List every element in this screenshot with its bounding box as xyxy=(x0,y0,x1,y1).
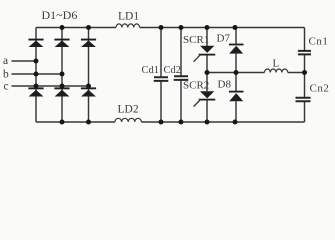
capacitor Cd2 plates xyxy=(174,76,189,80)
junction dot bottom rail D8 xyxy=(233,120,238,125)
junction dot top rail SCR1 xyxy=(205,25,210,30)
svg-text:Cn1: Cn1 xyxy=(309,36,329,48)
wire SCR column (top rail to SCR1) xyxy=(206,28,208,47)
diode D2 (bridge top, column 2) xyxy=(54,39,69,47)
junction dot bottom rail col3 xyxy=(86,120,91,125)
junction dot phase a col1 xyxy=(34,59,39,64)
diode D3 (bridge top, column 3) xyxy=(81,39,96,47)
wire phase c xyxy=(12,85,89,87)
wire phase a xyxy=(12,60,37,62)
thyristor SCR1 xyxy=(194,46,216,62)
wire top rail (LD1 to right corner) xyxy=(140,27,305,29)
junction dot top rail col2 xyxy=(60,25,65,30)
junction dot phase c col1 xyxy=(34,84,39,89)
wire SCR1 cathode to mid node xyxy=(206,55,208,73)
svg-text:D8: D8 xyxy=(218,79,232,91)
wire SCR2 cathode to bottom rail xyxy=(206,100,208,122)
diode D4 (bridge bottom, column 1) xyxy=(28,87,43,96)
junction dot top rail Cd1 xyxy=(159,25,164,30)
diode D8 xyxy=(229,91,244,102)
junction dot mid node D8 xyxy=(234,70,239,75)
svg-text:D7: D7 xyxy=(217,33,231,45)
wire SCR2 anode from mid node xyxy=(206,73,208,92)
wire D7 anode to mid node xyxy=(235,54,237,73)
junction dot bottom rail col2 xyxy=(60,120,65,125)
wire D8 anode to bottom rail xyxy=(235,101,237,122)
junction dot phase b col1 xyxy=(34,72,39,77)
capacitor Cn1 branch wire xyxy=(304,28,306,73)
svg-text:LD2: LD2 xyxy=(118,104,139,116)
wire top rail (left segment to LD1) xyxy=(36,27,116,29)
capacitor Cn2 plates xyxy=(296,98,311,102)
svg-text:SCR2: SCR2 xyxy=(183,80,209,92)
junction dot phase c col2 xyxy=(60,84,65,89)
svg-text:Cn2: Cn2 xyxy=(310,83,330,95)
wire bridge column 3 xyxy=(88,28,90,123)
diode D5 (bridge bottom, column 2) xyxy=(54,87,69,96)
svg-text:Cd1: Cd1 xyxy=(142,65,160,76)
junction dot top rail col3 xyxy=(86,25,91,30)
wire L to output node xyxy=(288,72,305,74)
svg-text:a: a xyxy=(3,55,8,67)
inductor LD2 xyxy=(115,118,141,122)
wire D8 cathode from mid node xyxy=(235,73,237,92)
wire D7 column (top rail to D7) xyxy=(235,28,237,45)
thyristor SCR2 xyxy=(194,91,216,106)
svg-text:D1~D6: D1~D6 xyxy=(42,8,78,22)
svg-text:c: c xyxy=(4,80,9,92)
junction dot mid node SCR xyxy=(205,70,210,75)
svg-text:L: L xyxy=(273,58,280,70)
junction dot phase b col2 xyxy=(60,72,65,77)
junction dot phase c col3 xyxy=(86,84,91,89)
junction dot top rail D7 xyxy=(233,25,238,30)
wire bottom rail (left segment to LD2) xyxy=(36,121,115,123)
svg-text:Cd2: Cd2 xyxy=(164,65,182,76)
wire phase b xyxy=(12,73,63,75)
wire bridge column 1 xyxy=(35,28,37,123)
capacitor Cn1 plates xyxy=(298,51,311,55)
capacitor Cd2 column wire xyxy=(180,28,182,123)
diode D7 xyxy=(229,44,244,54)
diode D1 (bridge top, column 1) xyxy=(28,39,43,47)
inductor L xyxy=(265,69,288,73)
junction dot bottom rail SCR2 xyxy=(205,120,210,125)
svg-text:SCR1: SCR1 xyxy=(183,34,209,46)
capacitor Cd1 plates xyxy=(154,77,169,81)
wire bottom rail (LD2 to right corner) xyxy=(141,121,304,123)
diode D6 (bridge bottom, column 3) xyxy=(81,87,96,96)
wire mid node to inductor L xyxy=(207,72,265,74)
inductor LD1 xyxy=(116,24,140,28)
junction dot bottom rail Cd2 xyxy=(179,120,184,125)
capacitor Cd1 column wire xyxy=(160,28,162,123)
svg-text:b: b xyxy=(3,68,9,80)
capacitor Cn2 branch wire xyxy=(304,73,306,123)
wire bridge column 2 xyxy=(61,28,63,123)
svg-text:LD1: LD1 xyxy=(118,11,139,23)
junction dot bottom rail Cd1 xyxy=(159,120,164,125)
junction dot top rail Cd2 xyxy=(179,25,184,30)
junction dot output node xyxy=(302,70,307,75)
